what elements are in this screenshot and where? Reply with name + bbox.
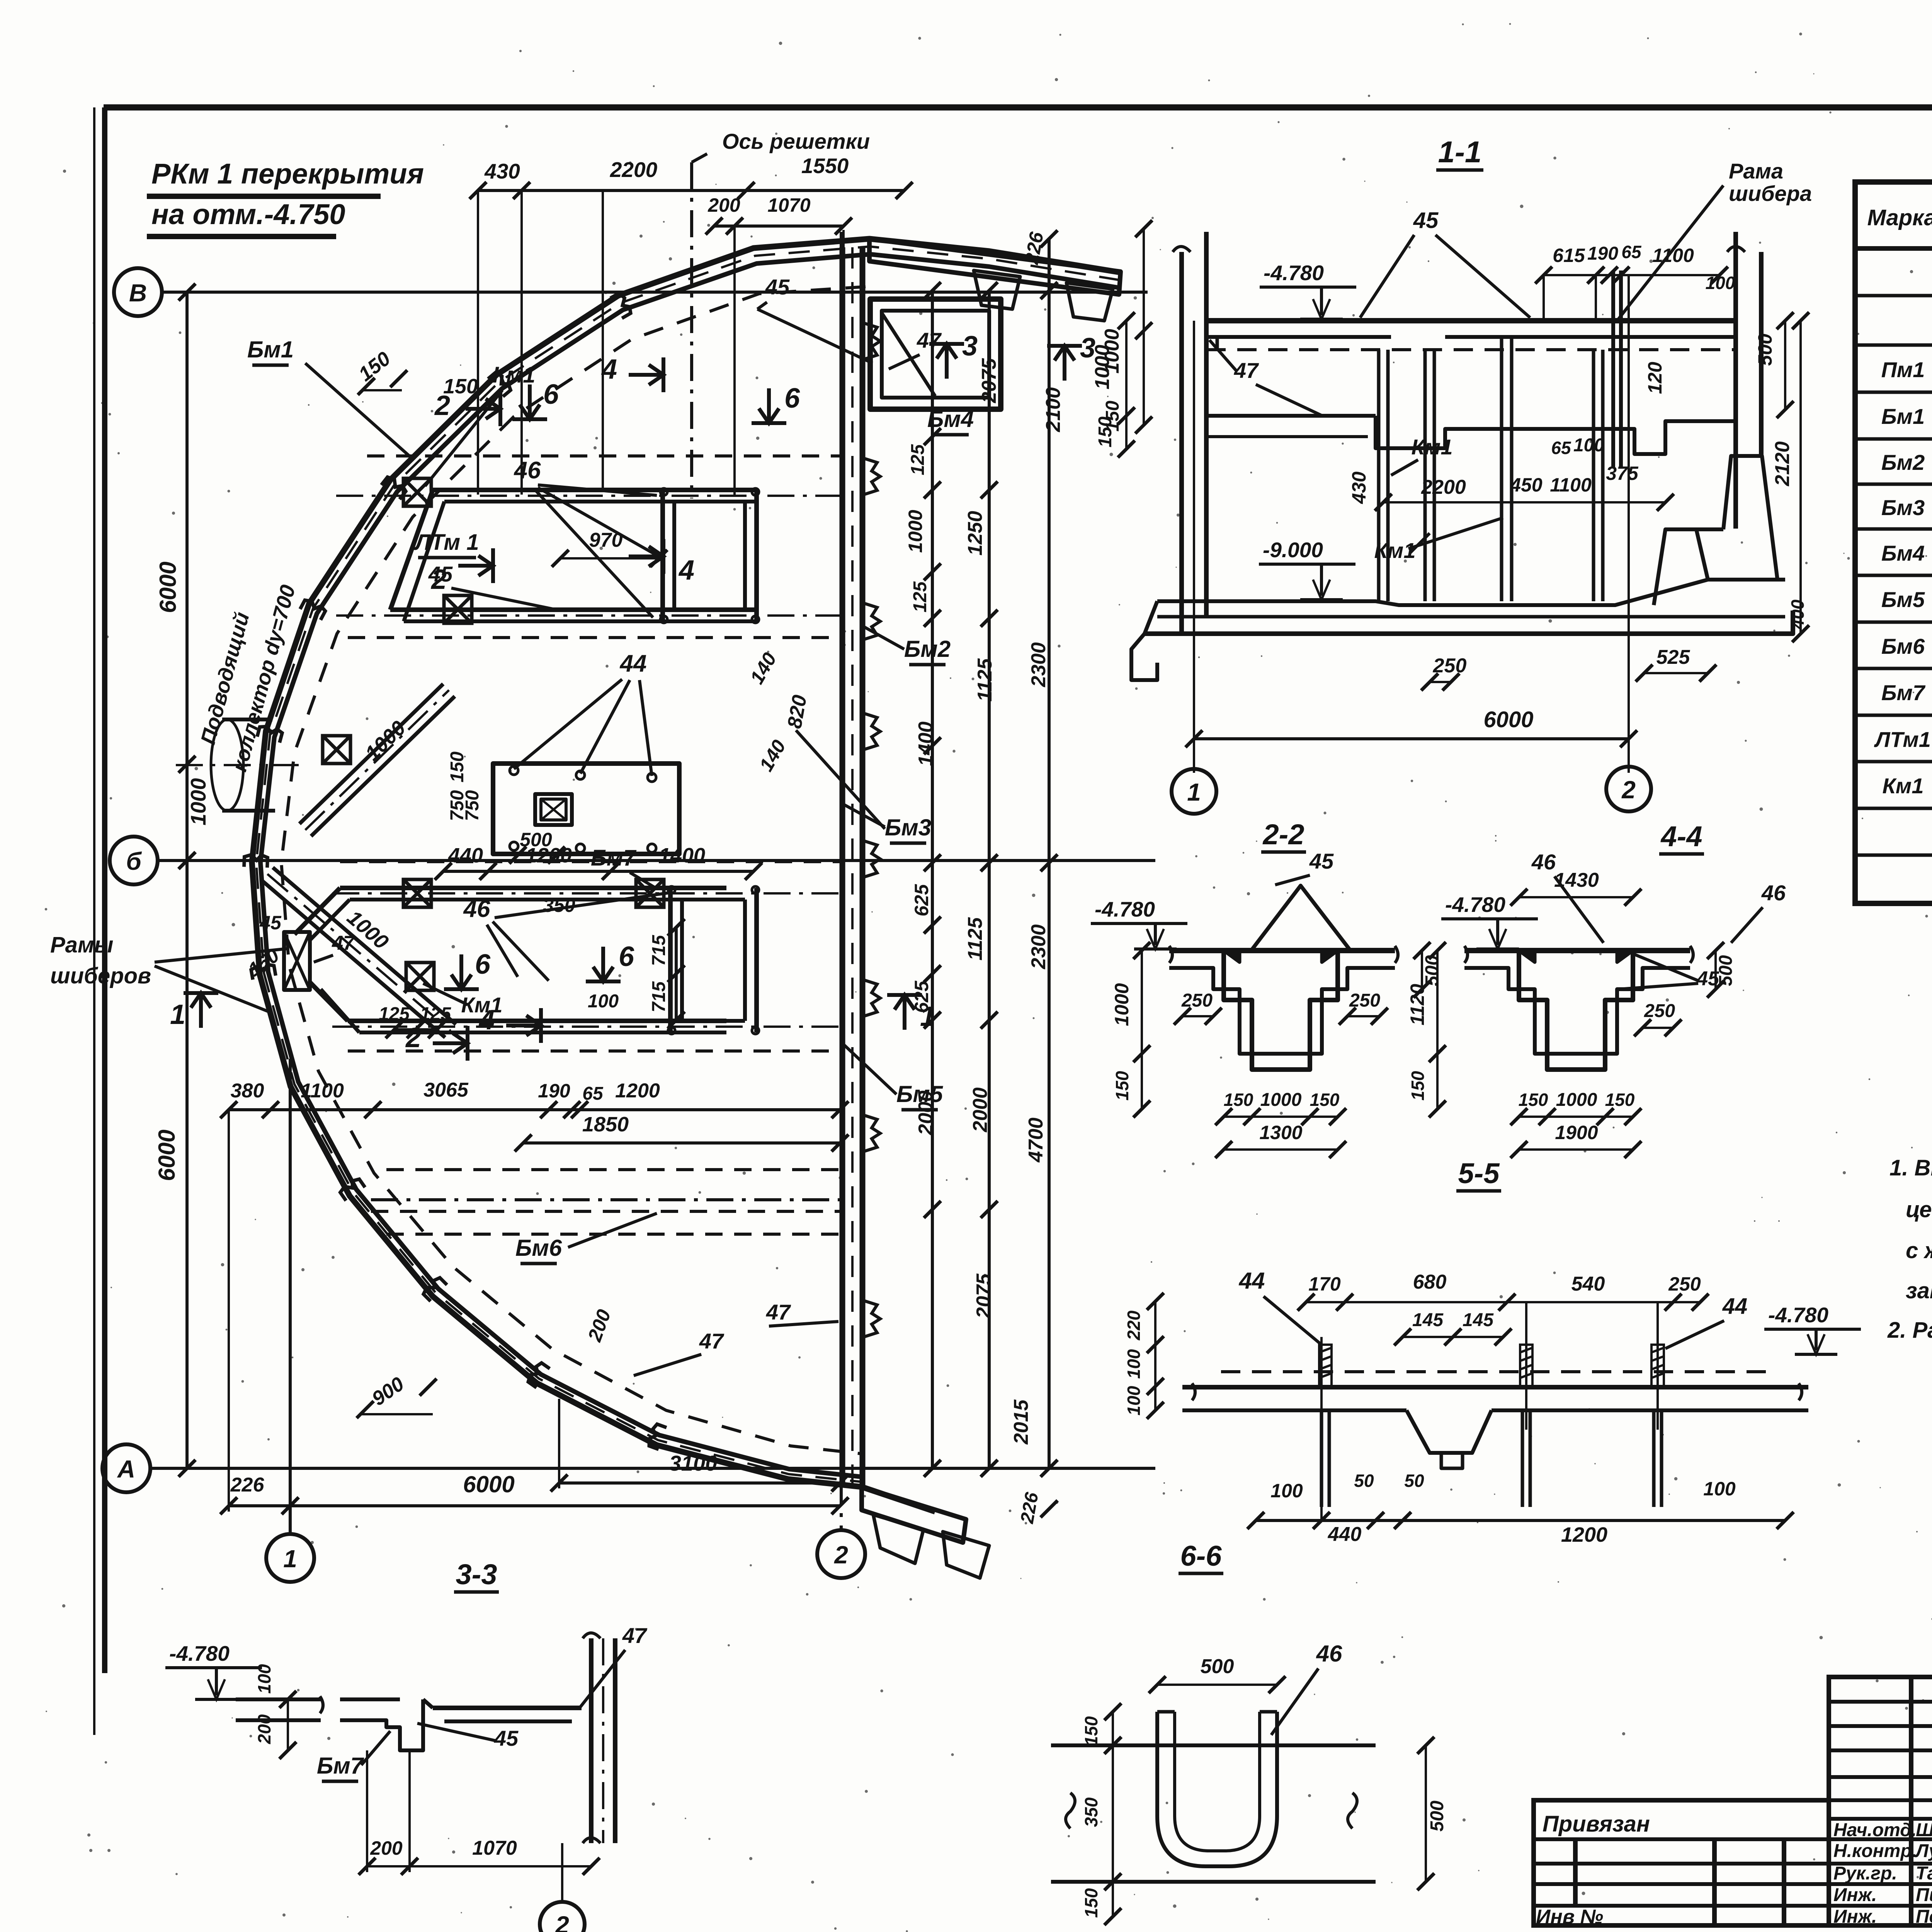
svg-text:150: 150	[1519, 1090, 1548, 1110]
svg-text:1430: 1430	[1554, 869, 1599, 891]
svg-text:Бм1: Бм1	[1881, 404, 1925, 429]
svg-text:500: 500	[1716, 955, 1736, 986]
S11 right sump shapes	[1654, 529, 1708, 605]
sheet border frame	[104, 104, 1932, 111]
svg-text:2. Рамы шиберов установить: 2. Рамы шиберов установить по механическ…	[1887, 1318, 1932, 1343]
svg-text:44: 44	[619, 650, 647, 677]
S55 anchor bolts	[1319, 1345, 1332, 1387]
svg-text:200: 200	[707, 194, 740, 216]
svg-text:190: 190	[1587, 243, 1618, 264]
svg-text:46: 46	[1531, 850, 1556, 874]
svg-text:-4.780: -4.780	[1095, 897, 1155, 921]
svg-text:150: 150	[1408, 1071, 1428, 1100]
svg-text:150: 150	[1095, 417, 1116, 447]
S11 bottom floor	[1157, 580, 1785, 605]
svg-text:4: 4	[601, 354, 617, 385]
S11 left dims	[1125, 321, 1128, 449]
svg-text:1: 1	[1187, 778, 1201, 806]
PLAN: lower channel АТм1	[340, 886, 726, 890]
svg-text:Шейко: Шейко	[1916, 1820, 1932, 1840]
svg-text:500: 500	[1422, 955, 1442, 986]
svg-text:715: 715	[649, 981, 669, 1012]
svg-text:430: 430	[484, 159, 520, 183]
svg-text:440: 440	[448, 844, 483, 867]
svg-text:Км1: Км1	[1374, 538, 1416, 563]
PLAN: slab edge dashed line inside rim	[281, 287, 866, 1454]
svg-text:1070: 1070	[767, 194, 810, 216]
svg-text:1400: 1400	[659, 844, 705, 867]
svg-text:65: 65	[1621, 242, 1642, 262]
svg-text:4: 4	[678, 555, 694, 586]
S11 interior columns	[1377, 350, 1381, 601]
svg-text:100: 100	[1703, 1478, 1736, 1500]
svg-text:2: 2	[405, 1022, 421, 1053]
svg-text:1100: 1100	[301, 1080, 344, 1102]
svg-text:250: 250	[1668, 1273, 1701, 1295]
svg-text:Бм3: Бм3	[885, 815, 931, 840]
svg-text:Бм5: Бм5	[1881, 587, 1925, 612]
svg-text:1: 1	[283, 1545, 297, 1573]
PLAN: axis B	[114, 268, 162, 316]
svg-text:4: 4	[478, 1005, 495, 1036]
PLAN: channel axes dash-dot	[336, 495, 841, 497]
PLAN: axis 1 vertical	[289, 1059, 292, 1533]
PLAN: left dim line 6000/6000/1000	[185, 292, 189, 1468]
svg-text:100: 100	[1270, 1480, 1303, 1502]
svg-text:226: 226	[230, 1474, 265, 1496]
svg-text:-4.780: -4.780	[1264, 261, 1324, 285]
svg-text:46: 46	[1316, 1641, 1342, 1667]
svg-text:45: 45	[259, 912, 282, 934]
svg-text:45: 45	[765, 275, 790, 299]
PLAN: section flags upper	[466, 391, 500, 426]
S11 mid dims	[1383, 501, 1665, 503]
svg-text:5-5: 5-5	[1458, 1157, 1500, 1189]
svg-text:2200: 2200	[1421, 476, 1466, 498]
svg-text:45: 45	[1309, 849, 1334, 873]
svg-text:100: 100	[1124, 1386, 1144, 1415]
PLAN: Бм6 label and beam	[371, 1198, 841, 1201]
svg-text:Инж.: Инж.	[1833, 1906, 1877, 1927]
svg-text:1125: 1125	[974, 658, 996, 702]
svg-text:Пм1: Пм1	[1881, 357, 1925, 382]
svg-text:145: 145	[1412, 1310, 1444, 1330]
PLAN: section flags lower	[433, 1026, 468, 1061]
svg-text:6000: 6000	[463, 1471, 514, 1497]
S11 right dims	[1784, 321, 1786, 410]
S55 bottom dims	[1256, 1519, 1785, 1522]
svg-text:44: 44	[1239, 1268, 1265, 1294]
svg-text:100: 100	[254, 1664, 274, 1694]
svg-text:2300: 2300	[1027, 924, 1050, 969]
svg-text:-9.000: -9.000	[1263, 538, 1323, 562]
svg-text:250: 250	[1644, 1001, 1675, 1021]
svg-text:680: 680	[1413, 1271, 1447, 1293]
svg-text:3-3: 3-3	[456, 1558, 497, 1590]
svg-text:625: 625	[911, 980, 932, 1013]
svg-text:Бм4: Бм4	[1881, 541, 1925, 565]
svg-text:6: 6	[475, 949, 491, 980]
svg-text:150: 150	[1605, 1090, 1635, 1110]
svg-text:Перова: Перова	[1916, 1906, 1932, 1927]
PLAN: right wall on axis 2	[840, 247, 845, 1486]
svg-text:46: 46	[514, 457, 541, 484]
PLAN: foundation dims 440 1200 1400	[443, 870, 753, 873]
svg-text:540: 540	[1571, 1273, 1605, 1295]
svg-text:Бм7: Бм7	[591, 845, 637, 871]
svg-text:170: 170	[1308, 1273, 1341, 1295]
svg-text:100: 100	[1706, 273, 1735, 293]
PLAN: wall brackets (beam seats)	[862, 323, 880, 360]
svg-text:1000: 1000	[1111, 983, 1133, 1026]
svg-text:715: 715	[649, 935, 669, 966]
svg-text:Рамы: Рамы	[50, 932, 113, 957]
svg-text:Инж.: Инж.	[1833, 1885, 1877, 1905]
svg-text:4-4: 4-4	[1660, 820, 1702, 852]
PLAN: pipe подводящий коллектор	[222, 718, 272, 721]
svg-text:380: 380	[231, 1080, 264, 1102]
svg-text:500: 500	[1754, 333, 1776, 366]
PLAN: axis 2 vertical	[840, 232, 843, 1529]
svg-text:6-6: 6-6	[1180, 1540, 1222, 1572]
S66 dims	[1157, 1684, 1277, 1686]
svg-text:250: 250	[1433, 655, 1467, 677]
svg-text:Км1: Км1	[493, 362, 536, 388]
svg-text:1550: 1550	[801, 154, 849, 178]
svg-text:6: 6	[543, 379, 559, 410]
svg-text:525: 525	[1656, 646, 1690, 668]
svg-text:Пивоварова: Пивоварова	[1916, 1885, 1932, 1905]
svg-text:1000: 1000	[905, 510, 926, 553]
PLAN: small right-top vertical dim 1000/150	[1143, 229, 1145, 425]
svg-text:б: б	[126, 847, 142, 875]
svg-text:4700: 4700	[1025, 1117, 1047, 1163]
svg-text:Рук.гр.: Рук.гр.	[1833, 1863, 1897, 1884]
svg-text:Бм1: Бм1	[247, 337, 294, 362]
PLAN: upper-right pit Бм4	[870, 299, 1001, 409]
svg-text:1125: 1125	[964, 917, 986, 961]
svg-text:В: В	[129, 279, 147, 307]
svg-text:1000: 1000	[186, 778, 210, 825]
svg-text:2000: 2000	[915, 1090, 937, 1136]
svg-text:-4.780: -4.780	[1768, 1303, 1828, 1327]
svg-text:350: 350	[1081, 1797, 1101, 1827]
svg-text:1900: 1900	[1555, 1122, 1598, 1143]
svg-text:500: 500	[1427, 1801, 1447, 1832]
svg-text:625: 625	[911, 884, 932, 917]
svg-text:1070: 1070	[472, 1837, 517, 1859]
svg-text:1850: 1850	[582, 1113, 629, 1136]
svg-text:3065: 3065	[423, 1079, 469, 1101]
svg-text:2120: 2120	[1771, 441, 1794, 486]
svg-text:2015: 2015	[1010, 1399, 1032, 1445]
svg-text:150: 150	[1224, 1090, 1253, 1110]
svg-text:затираются цементным раствор: затираются цементным раствором.	[1906, 1278, 1932, 1303]
svg-text:150: 150	[1310, 1090, 1340, 1110]
PLAN: dims inside lower area	[229, 1108, 840, 1111]
PLAN: top-right roof plate	[869, 239, 1121, 294]
S66 U-bolt	[1157, 1712, 1277, 1866]
svg-text:Рама: Рама	[1729, 159, 1783, 183]
svg-text:Ось решетки: Ось решетки	[722, 129, 870, 153]
svg-text:Бм2: Бм2	[1881, 450, 1925, 474]
S33 right slab	[433, 1706, 582, 1710]
svg-text:Км1: Км1	[1412, 435, 1453, 459]
svg-text:45: 45	[1413, 208, 1439, 233]
svg-text:Км1: Км1	[1883, 774, 1924, 798]
svg-text:44: 44	[1722, 1294, 1748, 1319]
svg-text:3: 3	[962, 331, 978, 362]
S11 top dims 615/190/65/1100	[1544, 274, 1719, 276]
PLAN: outer rim (double line)	[252, 239, 1121, 1512]
svg-text:Нач.отд.: Нач.отд.	[1833, 1820, 1917, 1840]
svg-text:200: 200	[370, 1837, 403, 1859]
PLAN: bottom dims	[229, 1504, 840, 1507]
svg-text:220: 220	[1124, 1310, 1144, 1340]
svg-text:150: 150	[1081, 1888, 1101, 1918]
svg-text:1120: 1120	[1406, 984, 1428, 1026]
svg-text:Бм4: Бм4	[927, 406, 974, 432]
svg-text:2: 2	[1621, 776, 1636, 804]
svg-text:Привязан: Привязан	[1543, 1811, 1650, 1837]
PLAN: top dim line 430/2200/1550	[478, 189, 904, 192]
svg-text:2075: 2075	[978, 358, 1000, 403]
svg-text:47: 47	[622, 1623, 648, 1648]
svg-text:6: 6	[784, 383, 800, 414]
svg-text:1100: 1100	[1652, 245, 1694, 266]
svg-text:1. Внутренние поверхности ло: 1. Внутренние поверхности лотков оштукат…	[1889, 1155, 1932, 1180]
S22 dims	[1141, 951, 1143, 1054]
svg-text:1000: 1000	[1091, 345, 1114, 389]
SPEC TABLE grid	[1855, 182, 1932, 903]
svg-text:2000: 2000	[969, 1087, 992, 1133]
svg-text:125: 125	[908, 444, 928, 475]
svg-text:190: 190	[538, 1080, 570, 1102]
S22 slab with trough	[1169, 948, 1395, 953]
svg-text:1250: 1250	[964, 511, 986, 556]
PLAN: upper channel ЛТм1	[433, 488, 757, 492]
svg-text:Бм7: Бм7	[1881, 680, 1926, 705]
svg-text:3100: 3100	[669, 1451, 718, 1475]
svg-text:47: 47	[917, 328, 942, 352]
S33 wall right	[589, 1638, 594, 1843]
svg-text:615: 615	[1553, 245, 1585, 266]
S11 left pocket	[1131, 634, 1157, 680]
S55 left dims	[1154, 1301, 1156, 1410]
svg-text:500: 500	[520, 829, 552, 850]
svg-text:2300: 2300	[1027, 642, 1050, 687]
svg-text:65: 65	[582, 1083, 604, 1104]
svg-text:375: 375	[1606, 463, 1639, 484]
svg-text:2100: 2100	[1042, 387, 1065, 432]
S66 slab	[1051, 1743, 1376, 1747]
svg-text:-4.780: -4.780	[1445, 893, 1505, 917]
PLAN: right dim stack	[931, 291, 934, 1468]
svg-text:Бм6: Бм6	[1881, 634, 1925, 658]
S55 top dims	[1306, 1301, 1700, 1303]
svg-text:ЛТм1: ЛТм1	[1874, 727, 1931, 752]
svg-text:400: 400	[1787, 599, 1808, 629]
svg-text:150: 150	[443, 375, 478, 398]
svg-text:Бм2: Бм2	[904, 636, 951, 662]
svg-text:Лучковский: Лучковский	[1915, 1841, 1932, 1861]
svg-text:46: 46	[1761, 881, 1786, 905]
svg-text:Инв №: Инв №	[1536, 1906, 1603, 1928]
svg-text:1200: 1200	[1561, 1523, 1607, 1546]
svg-text:Бм6: Бм6	[515, 1235, 562, 1261]
svg-text:2200: 2200	[610, 158, 658, 182]
S11 bottom dims	[1430, 681, 1451, 683]
S22 corner wedges	[1224, 951, 1240, 962]
svg-text:150: 150	[1112, 1071, 1132, 1100]
svg-text:Бм3: Бм3	[1881, 495, 1925, 520]
svg-text:145: 145	[1463, 1310, 1494, 1330]
S11 right wall	[1733, 232, 1738, 529]
svg-text:1100: 1100	[1550, 474, 1592, 496]
svg-text:1200: 1200	[615, 1080, 660, 1102]
svg-text:430: 430	[1348, 471, 1370, 504]
svg-text:6000: 6000	[155, 561, 181, 613]
svg-text:100: 100	[588, 991, 619, 1012]
S33 left slab	[236, 1697, 321, 1701]
svg-text:1-1: 1-1	[1438, 135, 1482, 169]
S11 top slab	[1206, 318, 1736, 323]
svg-text:А: А	[117, 1455, 135, 1483]
svg-text:2-2: 2-2	[1262, 818, 1304, 850]
S55 slab	[1182, 1385, 1808, 1389]
svg-text:6000: 6000	[154, 1129, 180, 1181]
PLAN: dim 200/1070	[714, 224, 844, 228]
svg-text:440: 440	[1328, 1523, 1362, 1546]
TITLE BLOCK	[1534, 1800, 1829, 1925]
svg-text:1000: 1000	[1556, 1090, 1597, 1110]
svg-text:Тахтамышева: Тахтамышева	[1916, 1863, 1932, 1884]
svg-text:Марка: Марка	[1867, 205, 1932, 230]
svg-text:47: 47	[699, 1329, 724, 1353]
svg-text:47: 47	[1234, 358, 1259, 383]
svg-text:150: 150	[1081, 1716, 1101, 1746]
PLAN: rim panel joints	[611, 292, 633, 318]
PLAN: bottom-right plates	[862, 1487, 966, 1543]
svg-text:на отм.-4.750: на отм.-4.750	[151, 198, 345, 230]
svg-text:Н.контр.: Н.контр.	[1833, 1841, 1917, 1861]
svg-text:ЛТм 1: ЛТм 1	[413, 530, 479, 555]
PLAN: diagonal braces	[311, 696, 455, 836]
svg-text:шибера: шибера	[1729, 181, 1812, 206]
svg-text:125: 125	[420, 1004, 451, 1024]
PLAN: column crosses Км1	[403, 478, 431, 506]
svg-text:250: 250	[1349, 990, 1380, 1011]
svg-text:47: 47	[332, 932, 355, 954]
svg-text:750: 750	[462, 790, 483, 821]
svg-text:50: 50	[1354, 1471, 1374, 1491]
svg-text:50: 50	[1404, 1471, 1424, 1491]
svg-text:200: 200	[254, 1714, 274, 1744]
svg-text:120: 120	[1644, 362, 1666, 394]
svg-text:45: 45	[494, 1726, 519, 1750]
svg-text:970: 970	[589, 529, 623, 551]
svg-text:1300: 1300	[1259, 1122, 1302, 1143]
svg-text:6: 6	[619, 941, 634, 972]
svg-text:2075: 2075	[973, 1273, 995, 1319]
svg-text:65: 65	[1551, 438, 1571, 458]
svg-text:-4.780: -4.780	[169, 1641, 230, 1665]
S11 axis circles	[1193, 321, 1195, 773]
svg-text:1: 1	[170, 999, 185, 1030]
S11 left wall	[1179, 252, 1184, 634]
svg-text:6000: 6000	[1483, 707, 1533, 732]
svg-text:2: 2	[555, 1911, 569, 1932]
PLAN: central foundation	[493, 764, 679, 854]
svg-text:1000: 1000	[1260, 1090, 1302, 1110]
svg-text:РКм 1 перекрытия: РКм 1 перекрытия	[151, 158, 424, 190]
svg-text:100: 100	[1124, 1349, 1144, 1379]
S11 шибер rod	[1611, 270, 1615, 468]
svg-text:100: 100	[1573, 435, 1604, 456]
svg-text:250: 250	[1181, 990, 1213, 1011]
svg-text:47: 47	[766, 1300, 791, 1324]
svg-text:с железнением. На участке ус: с железнением. На участке установки реше…	[1906, 1238, 1932, 1263]
svg-text:450: 450	[1510, 474, 1543, 496]
svg-text:46: 46	[463, 896, 490, 922]
PLAN: axis Б	[110, 837, 158, 884]
svg-text:1400: 1400	[915, 721, 937, 766]
svg-text:350: 350	[543, 895, 575, 916]
PLAN: axis A	[102, 1444, 150, 1492]
svg-text:Бм7: Бм7	[317, 1753, 364, 1779]
svg-text:500: 500	[1201, 1655, 1234, 1678]
svg-text:2: 2	[834, 1541, 848, 1569]
svg-text:цементно-песчаным раствором: цементно-песчаным раствором состава 1:2 …	[1906, 1197, 1932, 1222]
svg-text:45: 45	[428, 562, 453, 586]
svg-text:125: 125	[379, 1004, 410, 1024]
svg-text:150: 150	[447, 752, 468, 782]
svg-text:125: 125	[910, 581, 930, 612]
S11 sub slab with step	[1206, 414, 1376, 418]
svg-text:шиберов: шиберов	[50, 963, 151, 988]
